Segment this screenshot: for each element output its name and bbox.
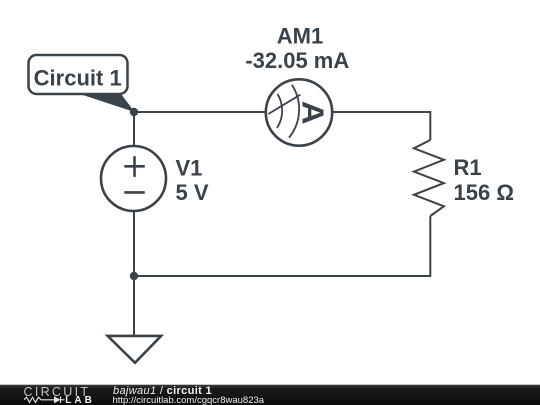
svg-text:Circuit 1: Circuit 1 [34,66,122,91]
svg-text:R1: R1 [454,155,482,180]
svg-text:http://circuitlab.com/cgqcr8wa: http://circuitlab.com/cgqcr8wau823a [113,395,265,405]
svg-text:A: A [296,101,331,125]
svg-text:AM1: AM1 [277,24,323,49]
svg-text:156 Ω: 156 Ω [454,180,514,205]
svg-text:LAB: LAB [65,395,95,405]
svg-text:V1: V1 [176,156,203,181]
svg-text:-32.05 mA: -32.05 mA [245,48,349,73]
svg-text:5 V: 5 V [176,180,209,205]
